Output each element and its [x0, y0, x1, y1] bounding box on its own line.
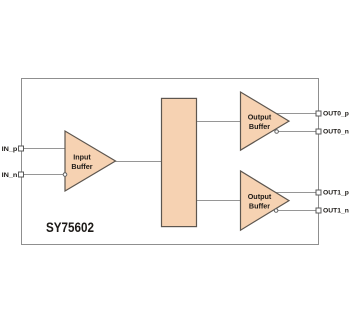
- wire center block to output buffer 0: [197, 121, 241, 123]
- pin pad OUT0_p: [316, 111, 321, 116]
- wire output buffer 0 bubble to OUT0_n: [278, 131, 319, 133]
- wire output buffer 1 to OUT1_p: [275, 192, 318, 194]
- svg-text:Output: Output: [248, 192, 272, 201]
- output buffer 1: [241, 171, 290, 230]
- svg-text:OUT1_n: OUT1_n: [323, 208, 349, 215]
- wire output buffer 0 to OUT0_p: [276, 113, 319, 115]
- output buffer 0 inversion bubble (OUT0_n): [275, 130, 279, 134]
- wire IN_n to input buffer bubble: [22, 174, 64, 176]
- wire IN_p to input buffer: [22, 148, 66, 150]
- wire center block to output buffer 1: [197, 200, 241, 202]
- pin pad OUT1_n: [316, 208, 321, 213]
- svg-text:Buffer: Buffer: [249, 122, 270, 131]
- svg-text:OUT1_p: OUT1_p: [323, 190, 349, 197]
- svg-text:Buffer: Buffer: [71, 162, 92, 171]
- wire input buffer to center block: [116, 161, 162, 163]
- svg-text:IN_p: IN_p: [2, 146, 18, 153]
- svg-text:OUT0_n: OUT0_n: [323, 129, 349, 136]
- svg-text:Output: Output: [248, 113, 272, 122]
- svg-text:SY75602: SY75602: [46, 219, 94, 235]
- wire output buffer 1 bubble to OUT1_n: [277, 210, 318, 212]
- input buffer inversion bubble (IN_n): [63, 173, 67, 177]
- svg-text:IN_n: IN_n: [2, 172, 18, 179]
- pin pad OUT1_p: [316, 190, 321, 195]
- input buffer U1: [65, 131, 116, 191]
- pin pad IN_n: [19, 172, 24, 177]
- svg-text:Input: Input: [73, 153, 91, 162]
- output buffer 1 inversion bubble (OUT1_n): [274, 209, 278, 213]
- center distribution block: [162, 98, 197, 226]
- pin pad OUT0_n: [316, 129, 321, 134]
- chip boundary SY75602: [22, 79, 319, 245]
- svg-text:OUT0_p: OUT0_p: [323, 111, 349, 118]
- svg-text:Buffer: Buffer: [249, 202, 270, 211]
- pin pad IN_p: [19, 146, 24, 151]
- output buffer 0: [241, 92, 290, 150]
